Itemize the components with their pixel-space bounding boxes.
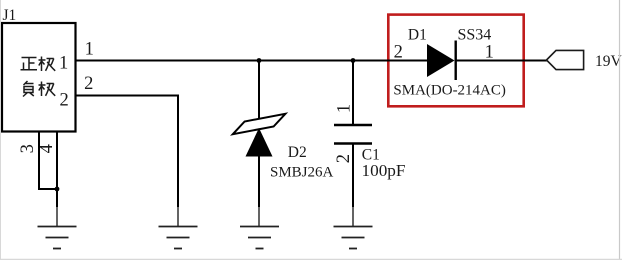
svg-text:2: 2 — [334, 154, 354, 163]
ground symbol below J1 pins — [38, 207, 77, 249]
capacitor C1 bottom plate — [334, 142, 372, 144]
wire D2 branch upper — [258, 61, 260, 120]
diode D1 cathode bar — [455, 41, 457, 81]
svg-text:3: 3 — [18, 144, 38, 153]
svg-text:1: 1 — [485, 42, 494, 62]
wire D2 branch lower — [258, 156, 260, 207]
wire pin1 rail — [76, 60, 428, 62]
svg-text:2: 2 — [84, 74, 93, 94]
wire C1 branch upper — [352, 61, 354, 125]
wire pin2 vertical — [177, 95, 179, 208]
pin label 极 glyph row1 — [39, 57, 56, 72]
wire pin3 — [38, 132, 57, 190]
ground symbol below C1 — [334, 207, 373, 249]
svg-text:D2: D2 — [288, 144, 307, 161]
screenshot border right — [619, 0, 621, 260]
svg-text:2: 2 — [394, 42, 403, 62]
svg-text:100pF: 100pF — [362, 161, 406, 180]
svg-text:1: 1 — [59, 54, 68, 74]
svg-text:19V: 19V — [595, 53, 622, 70]
diode D1 triangle — [427, 44, 455, 77]
pin label 极 glyph row2 — [39, 82, 56, 97]
TVS diode D2 cathode bar — [233, 114, 286, 134]
output port 19V pentagon — [547, 50, 584, 69]
connector J1 body — [2, 23, 76, 132]
wire pin2 horizontal — [76, 95, 180, 97]
svg-text:2: 2 — [60, 90, 69, 110]
svg-text:1: 1 — [335, 104, 355, 113]
junction dot pins 3-4 — [55, 187, 60, 192]
svg-text:D1: D1 — [408, 27, 427, 44]
svg-text:1: 1 — [85, 40, 94, 60]
ground symbol below D2 — [240, 207, 279, 249]
screenshot border bottom — [0, 258, 622, 260]
capacitor C1 top plate — [334, 124, 372, 126]
wire pin4 — [56, 132, 58, 208]
wire rail after D1 — [455, 60, 547, 62]
svg-text:SMA(DO-214AC): SMA(DO-214AC) — [393, 83, 506, 99]
svg-text:J1: J1 — [3, 7, 17, 24]
TVS diode D2 triangle — [246, 128, 273, 157]
junction dot C1 on rail — [351, 58, 356, 63]
svg-text:SS34: SS34 — [458, 27, 492, 44]
junction dot D2 on rail — [257, 58, 262, 63]
highlight red box around D1 — [388, 15, 523, 107]
pin label 负 (negative) — [23, 81, 34, 97]
pin label 正极 (positive) — [21, 58, 38, 70]
svg-text:SMBJ26A: SMBJ26A — [270, 164, 334, 180]
wire C1 branch lower — [352, 144, 354, 207]
screenshot border left — [0, 0, 2, 260]
ground symbol below pin2 wire — [159, 207, 198, 249]
